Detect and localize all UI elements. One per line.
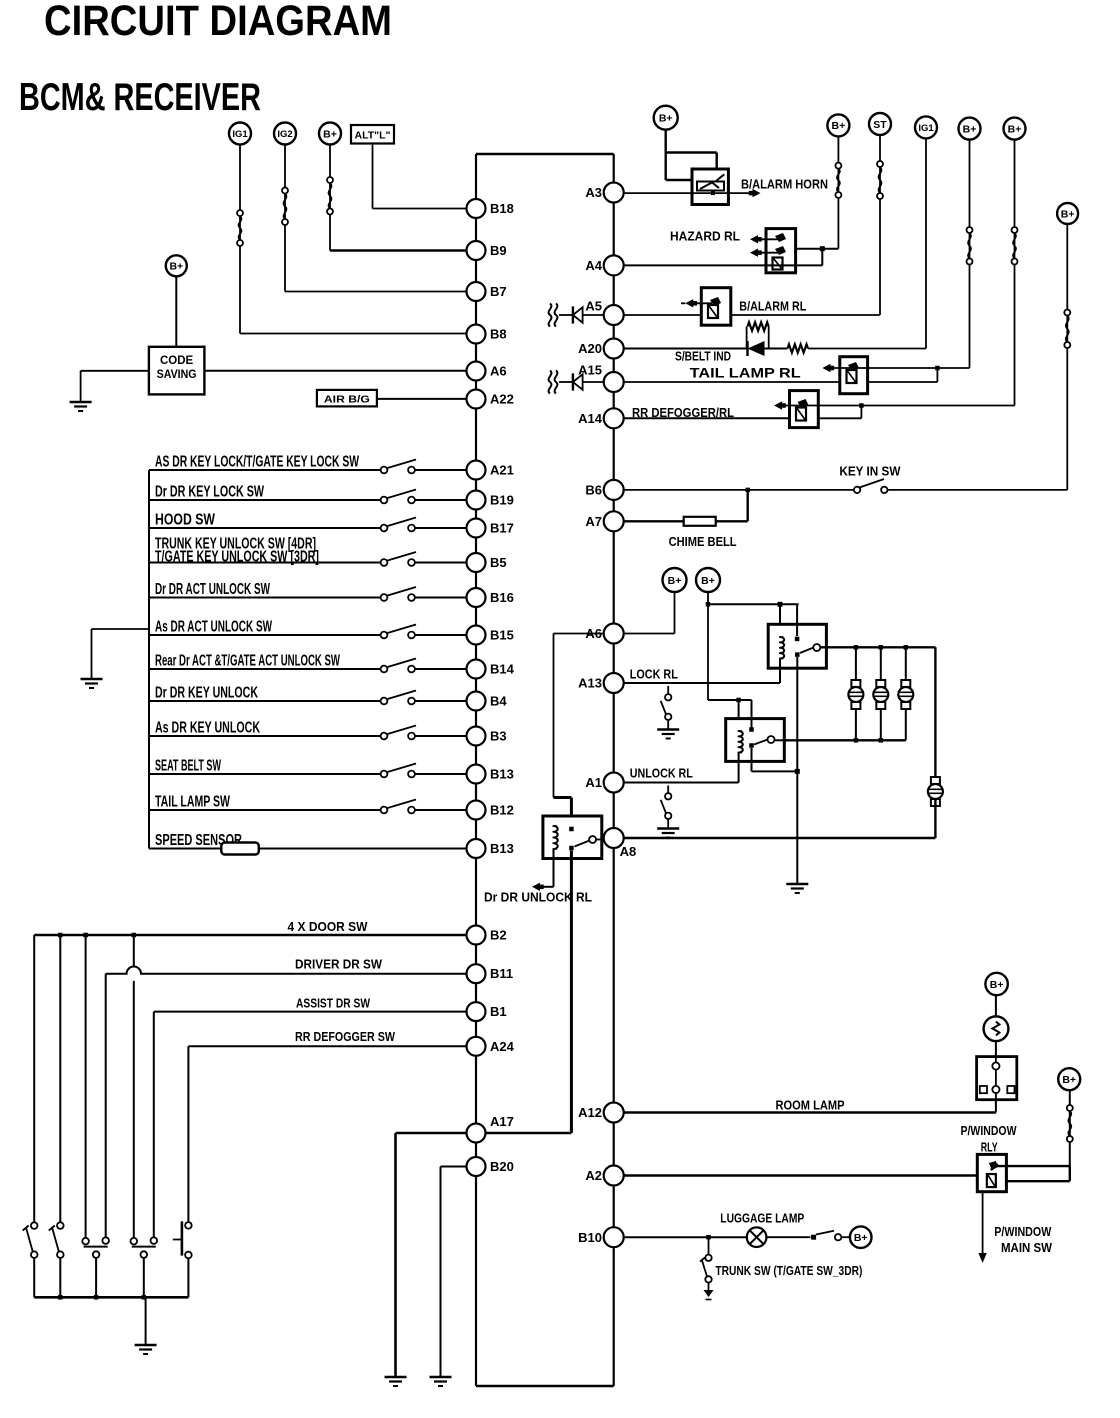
svg-text:P/WINDOW: P/WINDOW [961, 1124, 1017, 1138]
svg-text:HOOD SW: HOOD SW [155, 512, 216, 529]
svg-text:HAZARD RL: HAZARD RL [670, 230, 740, 244]
svg-text:Dr DR ACT UNLOCK SW: Dr DR ACT UNLOCK SW [155, 581, 271, 598]
svg-text:B+: B+ [659, 112, 673, 124]
svg-text:B2: B2 [490, 928, 507, 943]
svg-text:B17: B17 [490, 521, 514, 536]
svg-text:Rear Dr ACT &T/GATE ACT UNLOCK: Rear Dr ACT &T/GATE ACT UNLOCK SW [155, 653, 341, 670]
svg-text:KEY IN SW: KEY IN SW [839, 465, 900, 479]
svg-text:Dr DR UNLOCK RL: Dr DR UNLOCK RL [484, 890, 592, 905]
svg-text:RR DEFOGGER/RL: RR DEFOGGER/RL [632, 406, 734, 420]
svg-text:B19: B19 [490, 493, 514, 508]
svg-text:B9: B9 [490, 243, 507, 258]
svg-text:A8: A8 [620, 844, 637, 859]
svg-text:A12: A12 [578, 1105, 602, 1120]
svg-text:B15: B15 [490, 628, 514, 643]
svg-text:B+: B+ [668, 575, 682, 587]
svg-text:IG1: IG1 [232, 129, 248, 140]
svg-text:B+: B+ [1008, 123, 1022, 135]
svg-text:B4: B4 [490, 694, 507, 709]
svg-text:B+: B+ [701, 575, 715, 587]
svg-text:A14: A14 [578, 411, 603, 426]
svg-text:IG2: IG2 [277, 129, 292, 140]
svg-text:B10: B10 [578, 1230, 602, 1245]
svg-text:B+: B+ [963, 123, 977, 135]
svg-text:SAVING: SAVING [157, 369, 197, 381]
svg-text:TAIL LAMP RL: TAIL LAMP RL [690, 365, 802, 381]
svg-text:B3: B3 [490, 729, 507, 744]
svg-text:A21: A21 [490, 463, 514, 478]
svg-text:A7: A7 [585, 514, 602, 529]
svg-text:B+: B+ [323, 128, 337, 140]
svg-text:MAIN SW: MAIN SW [1001, 1241, 1052, 1255]
svg-text:A17: A17 [490, 1114, 514, 1129]
svg-text:B1: B1 [490, 1004, 507, 1019]
svg-text:ALT"L": ALT"L" [355, 131, 391, 142]
svg-text:AS DR KEY LOCK/T/GATE KEY LOCK: AS DR KEY LOCK/T/GATE KEY LOCK SW [155, 454, 360, 471]
svg-text:B6: B6 [585, 483, 602, 498]
svg-text:A6: A6 [490, 364, 507, 379]
svg-text:LUGGAGE LAMP: LUGGAGE LAMP [720, 1211, 804, 1225]
svg-text:B+: B+ [1061, 208, 1075, 220]
svg-text:B7: B7 [490, 284, 507, 299]
svg-text:BCM& RECEIVER: BCM& RECEIVER [19, 76, 261, 119]
svg-text:A3: A3 [585, 185, 602, 200]
svg-text:A2: A2 [585, 1168, 602, 1183]
svg-text:RLY: RLY [981, 1141, 998, 1155]
svg-text:B+: B+ [990, 979, 1004, 991]
svg-text:B13: B13 [490, 767, 514, 782]
svg-text:CHIME BELL: CHIME BELL [669, 535, 737, 549]
svg-text:DRIVER DR SW: DRIVER DR SW [295, 958, 382, 972]
svg-text:B+: B+ [854, 1232, 868, 1244]
svg-text:A4: A4 [585, 258, 602, 273]
svg-text:A13: A13 [578, 676, 602, 691]
svg-text:CODE: CODE [160, 355, 194, 367]
svg-text:A5: A5 [585, 299, 602, 314]
svg-text:A22: A22 [490, 392, 514, 407]
svg-text:UNLOCK RL: UNLOCK RL [630, 767, 693, 781]
svg-text:T/GATE KEY UNLOCK SW [3DR]: T/GATE KEY UNLOCK SW [3DR] [155, 549, 319, 566]
svg-text:CIRCUIT DIAGRAM: CIRCUIT DIAGRAM [44, 0, 392, 45]
svg-text:As DR ACT UNLOCK SW: As DR ACT UNLOCK SW [155, 619, 273, 636]
svg-text:B+: B+ [169, 261, 183, 273]
svg-text:B+: B+ [1062, 1074, 1076, 1086]
svg-text:ASSIST DR SW: ASSIST DR SW [296, 997, 370, 1011]
svg-text:P/WINDOW: P/WINDOW [994, 1225, 1051, 1239]
svg-text:B14: B14 [490, 662, 515, 677]
svg-text:B11: B11 [490, 966, 513, 981]
svg-text:B+: B+ [832, 120, 846, 132]
svg-text:B16: B16 [490, 590, 514, 605]
svg-text:S/BELT IND: S/BELT IND [675, 350, 731, 364]
svg-text:B12: B12 [490, 803, 514, 818]
svg-text:B18: B18 [490, 201, 514, 216]
svg-text:SEAT BELT SW: SEAT BELT SW [155, 758, 222, 775]
svg-text:B13: B13 [490, 841, 514, 856]
svg-text:B/ALARM RL: B/ALARM RL [739, 300, 806, 314]
svg-text:ROOM LAMP: ROOM LAMP [776, 1099, 845, 1113]
svg-text:B/ALARM HORN: B/ALARM HORN [741, 178, 828, 192]
svg-text:Dr DR KEY LOCK SW: Dr DR KEY LOCK SW [155, 484, 265, 501]
svg-text:AIR B/G: AIR B/G [324, 394, 370, 405]
svg-text:TAIL LAMP SW: TAIL LAMP SW [155, 794, 231, 811]
svg-text:B8: B8 [490, 327, 507, 342]
svg-text:ST: ST [873, 119, 887, 131]
svg-text:4 X DOOR SW: 4 X DOOR SW [288, 920, 368, 934]
svg-text:A1: A1 [585, 775, 602, 790]
svg-text:B5: B5 [490, 555, 507, 570]
svg-text:B20: B20 [490, 1159, 514, 1174]
svg-text:Dr DR KEY UNLOCK: Dr DR KEY UNLOCK [155, 685, 258, 702]
svg-text:As DR KEY UNLOCK: As DR KEY UNLOCK [155, 720, 260, 737]
svg-text:LOCK RL: LOCK RL [630, 668, 678, 682]
svg-text:RR DEFOGGER SW: RR DEFOGGER SW [295, 1030, 395, 1044]
svg-text:IG1: IG1 [918, 123, 934, 134]
svg-text:A20: A20 [578, 341, 602, 356]
svg-text:TRUNK SW (T/GATE SW_3DR): TRUNK SW (T/GATE SW_3DR) [715, 1264, 862, 1278]
svg-text:A24: A24 [490, 1039, 515, 1054]
